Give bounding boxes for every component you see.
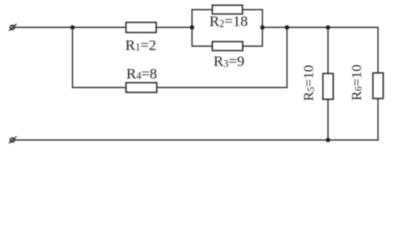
wire: top main wire from right bracket to top-right corner and down to R6 — [262, 27, 378, 73]
svg-text:R5=10: R5=10 — [302, 65, 317, 101]
resistor R5 — [323, 74, 333, 100]
wire: left bracket of parallel group — [191, 10, 193, 47]
junction node A (top of R4 branch) — [70, 25, 74, 29]
wire: R4 branch (left vertical from node A, horizontal run, right vertical up to node D) — [73, 27, 288, 87]
resistor R1 — [126, 22, 156, 32]
junction node E (main wire at R5) — [326, 25, 330, 29]
svg-text:R1=2: R1=2 — [125, 38, 156, 54]
svg-text:R4=8: R4=8 — [126, 67, 157, 83]
svg-text:R6=10: R6=10 — [350, 65, 365, 101]
wire: bottom rail of parallel group — [191, 45, 263, 47]
wire: top main wire from input terminal to left bracket of parallel group — [14, 26, 192, 28]
junction node F (bottom wire at R5) — [326, 138, 330, 142]
svg-text:R3=9: R3=9 — [214, 54, 245, 70]
wire: R6 bottom lead — [377, 99, 379, 141]
junction node C (main wire at right bracket) — [260, 25, 264, 29]
resistor R3 — [212, 42, 242, 51]
resistor R2 — [212, 5, 242, 14]
junction node B (main wire at left bracket) — [190, 25, 194, 29]
terminal X2 (bottom-left input) — [9, 136, 17, 143]
resistor R6 — [373, 73, 383, 99]
wire: top rail of parallel group — [191, 9, 263, 11]
svg-text:R2=18: R2=18 — [209, 14, 247, 30]
terminal X1 (top-left input) — [9, 24, 17, 31]
resistor R4 — [126, 83, 157, 93]
wire: right bracket of parallel group — [261, 10, 263, 47]
junction node D (main wire at R4 right vertical) — [285, 25, 289, 29]
wire: R5 vertical (top lead and bottom lead) — [327, 27, 329, 140]
wire: bottom return wire from input terminal to R6 — [14, 139, 379, 141]
